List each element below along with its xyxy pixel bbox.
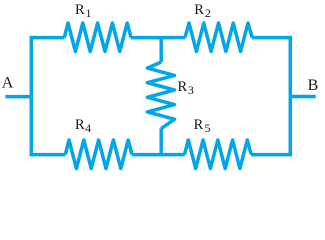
- svg-text:R: R: [178, 79, 188, 95]
- wire: bottom-left segment: [30, 153, 66, 157]
- svg-text:B: B: [308, 77, 319, 94]
- label R4: [75, 117, 91, 135]
- resistor R1: [64, 23, 131, 52]
- resistor R2: [185, 23, 252, 52]
- wire: bottom-right segment: [251, 153, 292, 157]
- resistor R3: [147, 62, 174, 129]
- wire: right vertical branch: [289, 36, 293, 156]
- svg-text:R: R: [75, 2, 85, 18]
- wire: top-right segment: [252, 36, 292, 40]
- wire: node B stub: [290, 95, 316, 99]
- resistor R4: [65, 140, 132, 169]
- svg-text:1: 1: [86, 6, 92, 20]
- wire: R3 bottom stub to junction: [159, 128, 163, 156]
- wire: top-left segment: [30, 36, 65, 40]
- svg-text:R: R: [194, 2, 204, 18]
- svg-text:3: 3: [188, 83, 194, 97]
- wire: node A stub: [5, 95, 31, 99]
- svg-text:R: R: [194, 117, 204, 133]
- wire: left vertical branch: [30, 36, 34, 156]
- svg-text:2: 2: [205, 6, 211, 20]
- svg-text:A: A: [2, 75, 14, 92]
- label R3: [178, 79, 194, 97]
- svg-text:R: R: [75, 117, 85, 133]
- label R2: [194, 2, 211, 20]
- resistor R5: [185, 140, 252, 169]
- wire: top-middle segment: [131, 36, 185, 40]
- label R5: [194, 117, 211, 135]
- svg-text:5: 5: [205, 121, 211, 135]
- label R1: [75, 2, 92, 20]
- svg-text:4: 4: [85, 121, 91, 135]
- wire: R3 top stub from junction: [159, 36, 163, 62]
- wire: bottom-middle segment: [132, 153, 185, 157]
